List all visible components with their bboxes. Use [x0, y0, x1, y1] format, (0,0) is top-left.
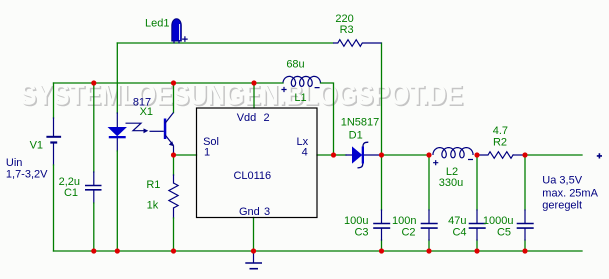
wire C2 branch	[428, 155, 430, 251]
capacitor C4 plates	[469, 224, 486, 229]
svg-text:Gnd: Gnd	[239, 206, 260, 218]
wire C3 leads	[381, 210, 383, 240]
wire C3 branch	[381, 155, 383, 251]
svg-text:2: 2	[264, 112, 270, 124]
wire X1 LED cathode lead	[116, 138, 118, 151]
svg-text:L1: L1	[294, 92, 306, 104]
svg-text:max. 25mA: max. 25mA	[542, 188, 598, 200]
wire top rail from L1 to corner and down to Lx node	[321, 83, 334, 155]
svg-text:X1: X1	[140, 106, 153, 118]
LED Led1 body	[172, 19, 182, 44]
wire C4 leads	[476, 210, 478, 240]
capacitor C5 plates	[517, 224, 534, 229]
wire output node to C2 node	[382, 154, 430, 156]
svg-text:Vdd: Vdd	[237, 112, 257, 124]
wire R3 right vertical down to output node	[381, 43, 383, 155]
svg-text:C2: C2	[401, 227, 415, 239]
svg-text:1000u: 1000u	[483, 215, 514, 227]
svg-text:geregelt: geregelt	[542, 200, 582, 212]
svg-text:4: 4	[302, 147, 308, 159]
wire emitter node down to R1	[173, 155, 175, 175]
wire C2 leads	[428, 210, 430, 240]
svg-text:Ua 3,5V: Ua 3,5V	[542, 174, 582, 186]
junction dots output row	[171, 152, 528, 157]
wire C1 branch upper	[93, 83, 95, 172]
wire X1 collector to top rail	[173, 83, 175, 113]
wire ground bottom rail	[54, 250, 583, 252]
svg-text:1: 1	[204, 147, 210, 159]
capacitor C2 plates	[421, 224, 438, 229]
L2 polarity marks	[433, 160, 473, 166]
watermark SYSTEMLOESUNGEN.BLOGSPOT.DE	[20, 80, 465, 114]
junction dots top rail	[91, 80, 256, 85]
svg-text:R3: R3	[340, 24, 354, 36]
svg-text:C5: C5	[497, 227, 511, 239]
optocoupler X1 light arrow	[126, 123, 144, 131]
svg-text:D1: D1	[349, 130, 363, 142]
svg-text:C1: C1	[64, 187, 78, 199]
wire battery branch lower	[53, 165, 55, 251]
capacitor C3 plates	[373, 224, 390, 229]
svg-text:4.7: 4.7	[493, 125, 508, 137]
wire X1 LED cathode to ground rail	[116, 151, 118, 251]
wire R2 to C5 node	[513, 154, 525, 156]
resistor R2 zigzag	[477, 152, 513, 159]
svg-text:Uin: Uin	[6, 157, 23, 169]
svg-text:1,7-3,2V: 1,7-3,2V	[6, 169, 48, 181]
inductor L2 coil	[433, 148, 473, 158]
wire battery lead top	[53, 118, 55, 136]
battery V1 plates	[46, 137, 61, 143]
svg-text:1N5817: 1N5817	[341, 117, 380, 129]
svg-text:100n: 100n	[392, 215, 416, 227]
wire Lx pin to node	[317, 154, 334, 156]
wire Led1 vertical down to X1 LED	[116, 43, 118, 113]
svg-text:C4: C4	[452, 227, 466, 239]
wire C1 branch lower	[93, 203, 95, 251]
wire Gnd pin to ground rail	[253, 218, 255, 252]
ground symbol	[245, 251, 262, 269]
wire top rail from battery top to L1	[54, 82, 284, 84]
svg-text:V1: V1	[30, 139, 43, 151]
wire emitter node to Sol pin	[174, 154, 197, 156]
optocoupler X1 LED	[109, 128, 126, 139]
svg-text:CL0116: CL0116	[233, 170, 271, 182]
svg-text:3: 3	[264, 206, 270, 218]
svg-text:R1: R1	[146, 179, 160, 191]
Led1 plus marker	[182, 36, 188, 42]
wire Vdd branch	[253, 83, 255, 108]
output plus terminal	[597, 153, 602, 158]
svg-text:330u: 330u	[439, 177, 463, 189]
wire top led loop: Led wire y=43	[117, 42, 333, 44]
diode D1 1N5817 schottky	[353, 142, 369, 168]
wire C5 leads	[524, 210, 526, 240]
L1 polarity marks	[281, 87, 319, 92]
resistor R1 zigzag	[169, 183, 178, 208]
wire battery branch upper	[53, 83, 55, 118]
svg-text:Led1: Led1	[145, 17, 169, 29]
wire R1 to ground rail	[173, 218, 175, 251]
svg-text:1k: 1k	[147, 199, 159, 211]
IC U1 CL0116 box	[197, 108, 318, 218]
svg-text:47u: 47u	[448, 215, 466, 227]
wire C5 branch	[524, 155, 526, 251]
svg-text:100u: 100u	[344, 215, 368, 227]
inductor L1 coil	[283, 76, 321, 86]
wire D1 leads	[346, 154, 382, 156]
svg-text:C3: C3	[354, 227, 368, 239]
optocoupler X1 phototransistor	[150, 113, 174, 156]
wire battery lead bottom	[53, 143, 55, 165]
wire X1 LED anode lead	[116, 113, 118, 128]
svg-text:68u: 68u	[286, 59, 304, 71]
resistor R3 zigzag	[333, 40, 382, 47]
capacitor C1 plates	[85, 186, 102, 190]
wire C1 leads	[93, 172, 95, 203]
junction dots ground rail	[91, 248, 527, 253]
svg-text:R2: R2	[493, 137, 507, 149]
wire C4 branch	[476, 155, 478, 251]
svg-text:SYSTEMLOESUNGEN.BLOGSPOT.DE: SYSTEMLOESUNGEN.BLOGSPOT.DE	[20, 80, 463, 112]
wire C5 node to output end	[525, 154, 582, 156]
wire Lx node to D1	[334, 154, 347, 156]
wire R1 leads	[173, 175, 175, 218]
